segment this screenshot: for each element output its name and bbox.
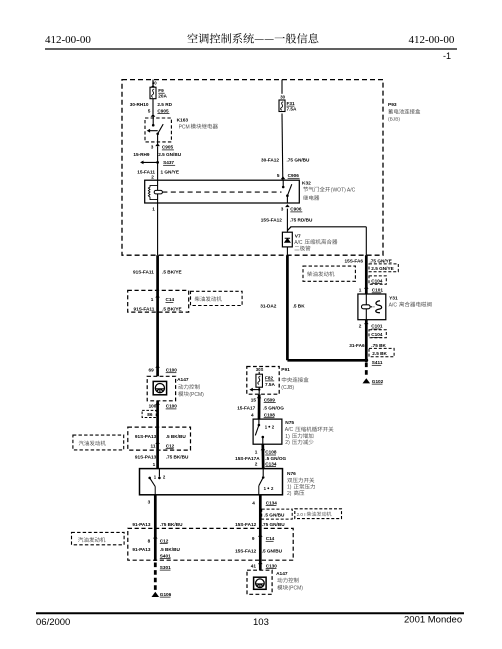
svg-text:C906: C906: [288, 173, 300, 178]
wire V7 down: [286, 247, 288, 255]
svg-text:1: 1: [152, 207, 155, 212]
PCM A147 box (dashed): [147, 376, 175, 401]
svg-text:.5 BK: .5 BK: [293, 303, 306, 308]
petrol engine note box (lower): [72, 532, 125, 544]
svg-text:K163: K163: [177, 117, 189, 123]
svg-text:103: 103: [253, 617, 269, 628]
svg-text:.5 BK/BU: .5 BK/BU: [166, 434, 187, 439]
svg-text:4: 4: [251, 412, 254, 417]
K32 label: [302, 180, 356, 200]
pin 2 of K32: [151, 174, 154, 179]
pin 2 connector C134: [255, 461, 277, 466]
svg-text:S301: S301: [160, 565, 171, 570]
svg-text:.75 BK/BU: .75 BK/BU: [166, 455, 189, 460]
svg-text:C100: C100: [166, 404, 178, 409]
PCM icon: [153, 381, 166, 394]
svg-text:.75 GN/BU: .75 GN/BU: [262, 522, 286, 527]
wire N76 pin4 down: [259, 495, 262, 570]
PCM A147 box bottom (dashed): [247, 570, 272, 594]
svg-text:F82: F82: [265, 376, 273, 381]
svg-text:2: 2: [359, 324, 362, 329]
svg-text:S411: S411: [372, 360, 383, 365]
fuse F82 7.5A: [256, 374, 263, 387]
wire N75 to N76: [261, 444, 264, 468]
svg-text:30: 30: [152, 80, 157, 85]
svg-text:A147: A147: [177, 377, 189, 383]
wire Y31 to S411: [365, 320, 368, 361]
svg-text:C104: C104: [371, 332, 383, 337]
svg-text:91S-PA13: 91S-PA13: [135, 434, 157, 439]
svg-text:A/C: A/C: [285, 427, 294, 433]
svg-text:N75: N75: [285, 420, 294, 426]
svg-text:1): 1): [285, 434, 290, 440]
PCM icon bottom: [254, 577, 267, 589]
svg-text:(PCM): (PCM): [289, 586, 304, 592]
wire label 31-DA2 .5 BK: [260, 303, 305, 308]
N76 left switch: [148, 469, 166, 495]
svg-text:2.5 BK: 2.5 BK: [372, 351, 387, 356]
diesel engine note box (middle): [303, 266, 355, 281]
alt wire 2.5 BK (dashed): [369, 348, 394, 356]
svg-text:.5 GN/BU: .5 GN/BU: [262, 548, 283, 553]
wire F82 to N75: [258, 394, 261, 419]
svg-text:86: 86: [147, 412, 153, 417]
svg-text:30S: 30S: [256, 367, 264, 372]
wire N76 pin3 down: [154, 495, 157, 561]
wire F31 to C906: [281, 114, 284, 181]
diesel connector box 2 (dashed): [128, 427, 191, 450]
splice S401: [160, 553, 171, 558]
pin 5 connector C905: [148, 108, 170, 113]
svg-text:F9: F9: [158, 88, 164, 93]
alt wire label 91S-FA11 .5 BK/YE: [134, 306, 182, 311]
svg-text:C100: C100: [166, 367, 178, 372]
svg-text:1: 1: [151, 297, 154, 302]
note 2.0I diesel (dashed): [295, 509, 342, 519]
svg-text:(PCM): (PCM): [189, 392, 204, 398]
footer page: [253, 617, 269, 628]
svg-text:91-PA13: 91-PA13: [132, 547, 151, 552]
svg-text:.75 GN/BU: .75 GN/BU: [287, 158, 311, 163]
wire label 15-FA17 .5 GN/OG: [237, 405, 284, 410]
pin 1 of N76: [153, 462, 156, 467]
svg-text:C134: C134: [266, 500, 278, 505]
svg-text:2): 2): [287, 491, 292, 497]
svg-text:C14: C14: [166, 297, 175, 302]
svg-text:A/C: A/C: [294, 240, 303, 246]
alt wire .5 GN/BU (dashed): [262, 509, 293, 519]
svg-text:.75 RD/BU: .75 RD/BU: [290, 217, 313, 222]
pin 4 connector C108: [251, 412, 275, 417]
Y31 symbol: [362, 294, 382, 320]
connector C104 lower (dashed): [369, 330, 386, 338]
svg-text:2): 2): [285, 440, 290, 446]
wire left column down: [156, 255, 159, 376]
splice S437 arrow: [140, 160, 175, 165]
svg-text:C104: C104: [371, 278, 383, 283]
svg-text:N76: N76: [287, 471, 296, 477]
svg-text:C134: C134: [265, 461, 277, 466]
svg-text:3: 3: [151, 145, 154, 150]
svg-text:8: 8: [148, 538, 151, 543]
wire label 91S-PA13 .75 BK/BU: [135, 455, 189, 460]
pin 5 connector C906: [277, 173, 300, 178]
splice S411: [364, 358, 382, 365]
svg-text:3: 3: [281, 207, 284, 212]
pin 1 of K32: [152, 207, 155, 212]
svg-text:C509: C509: [264, 397, 276, 402]
wire 15S-FA6 down to Y31: [365, 255, 368, 294]
svg-text:91S-FA11: 91S-FA11: [133, 269, 154, 274]
svg-text:1 GN/YE: 1 GN/YE: [161, 170, 180, 175]
solenoid Y31 box: [358, 294, 386, 320]
header rule: [45, 48, 457, 50]
svg-text:.5 BK/YE: .5 BK/YE: [162, 269, 182, 274]
wire label 91S-FA11 .5 BK/YE: [133, 269, 182, 274]
relay K32 box: [145, 180, 300, 203]
pin 69 connector C100: [148, 365, 177, 373]
label 30 F31: [280, 95, 285, 100]
svg-text:.75 GN/YE: .75 GN/YE: [370, 258, 392, 263]
svg-text:41: 41: [251, 563, 257, 568]
svg-text:412-00-00: 412-00-00: [45, 34, 91, 46]
svg-text:7.5A: 7.5A: [265, 382, 276, 387]
pin 1 connector C108 lower: [255, 447, 277, 455]
fuse F31 7.5A: [279, 100, 285, 112]
svg-text:15S-FA17A: 15S-FA17A: [235, 456, 260, 461]
svg-text:30: 30: [280, 95, 285, 100]
svg-text:69: 69: [148, 367, 154, 372]
header title: [187, 33, 318, 43]
svg-text:15S-FA12: 15S-FA12: [235, 522, 256, 527]
wire F9 to C905: [152, 99, 154, 114]
alt wire label 91S-PA13 .5 BK/BU: [135, 434, 186, 439]
wire label 15-FA11 1 GN/YE: [137, 170, 179, 175]
svg-text:C14: C14: [266, 536, 275, 541]
svg-text:.5 GN/BU: .5 GN/BU: [264, 512, 285, 517]
svg-text:P93: P93: [388, 102, 397, 108]
svg-text:S401: S401: [160, 553, 171, 558]
svg-text:1): 1): [287, 485, 292, 491]
svg-text:1: 1: [359, 288, 362, 293]
svg-text:.75 BK: .75 BK: [371, 343, 386, 348]
K163 switch: [147, 117, 164, 147]
svg-text:15S-FA6: 15S-FA6: [345, 258, 364, 263]
connector arrow above F9: [151, 85, 156, 88]
footer rule: [36, 612, 464, 614]
svg-text:1: 1: [255, 450, 258, 455]
switch N76 box: [140, 469, 283, 495]
wire S411 to ground: [365, 363, 368, 378]
pin 1 connector C101: [359, 286, 384, 293]
svg-text:15-FA17: 15-FA17: [237, 405, 255, 410]
svg-text:4: 4: [252, 500, 255, 505]
alt pin 86 (dashed): [142, 410, 156, 417]
diode V7 symbol: [285, 238, 290, 242]
alt wire 2.5 GN/YE (dashed): [369, 264, 398, 272]
svg-text:7.5A: 7.5A: [287, 107, 298, 112]
svg-text:(WOT) A/C: (WOT) A/C: [331, 187, 356, 193]
svg-text:C101: C101: [372, 288, 384, 293]
svg-text:30-RH10: 30-RH10: [130, 102, 149, 107]
wire label 30-RH10 2.5 RD: [130, 102, 173, 107]
P93 label: [388, 102, 420, 123]
ground G102: [363, 378, 384, 384]
svg-text:S437: S437: [163, 160, 174, 165]
svg-text:G106: G106: [160, 592, 172, 597]
label 30: [152, 80, 157, 85]
connector triangle C905: [151, 114, 156, 117]
svg-text:P91: P91: [281, 367, 290, 373]
svg-text:15S-FA12: 15S-FA12: [261, 217, 282, 222]
N75 label: [285, 420, 334, 446]
diode V7 box: [282, 232, 292, 247]
svg-text:30-FA12: 30-FA12: [261, 158, 279, 163]
svg-text:31-DA2: 31-DA2: [260, 303, 277, 308]
wire 31-DA2: [287, 255, 366, 360]
svg-text:V7: V7: [295, 233, 301, 239]
svg-text:11: 11: [151, 443, 156, 448]
svg-text:20A: 20A: [158, 93, 167, 98]
lower variant box (dashed): [128, 528, 293, 560]
svg-text:.5 GN/OG: .5 GN/OG: [263, 405, 284, 410]
pin 100 connector C100: [149, 402, 178, 409]
petrol engine note box (upper): [73, 435, 124, 450]
svg-text:.75 BK/BU: .75 BK/BU: [160, 522, 183, 527]
header page number right: [409, 34, 455, 46]
svg-text:C108: C108: [265, 450, 277, 455]
P91 central junction box (dashed): [247, 367, 279, 395]
svg-text:100: 100: [149, 404, 157, 409]
svg-text:C905: C905: [162, 145, 174, 150]
svg-text:15S-FA12: 15S-FA12: [235, 548, 256, 553]
svg-text:G102: G102: [372, 379, 384, 384]
svg-text:F31: F31: [287, 101, 295, 106]
svg-text:C12: C12: [166, 443, 175, 448]
ground G106: [152, 592, 172, 597]
svg-text:.5 BK/YE: .5 BK/YE: [162, 306, 182, 311]
svg-text:.5 GN/OG: .5 GN/OG: [265, 456, 286, 461]
svg-text:15-RH9: 15-RH9: [133, 152, 150, 157]
circuit 30 stub: [152, 80, 154, 86]
F82 arrow: [249, 387, 260, 394]
pin 3 of N76: [148, 499, 151, 504]
svg-text:91S-PA13: 91S-PA13: [135, 455, 157, 460]
pin 3 connector C905 lower: [151, 143, 174, 150]
wire A147 down: [156, 401, 159, 469]
diesel connector box (dashed): [128, 290, 189, 312]
wire label 15-RH9 2.5 GN/BU: [133, 152, 181, 157]
svg-text:9: 9: [252, 536, 255, 541]
Y31 label: [389, 295, 432, 308]
P91 label: [281, 367, 308, 391]
label 30S: [256, 367, 264, 374]
diesel engine note box (left): [191, 291, 243, 305]
svg-text:2.5 RD: 2.5 RD: [157, 102, 172, 107]
P93 battery junction box (dashed): [122, 80, 383, 256]
F82 label: [265, 376, 276, 387]
svg-text:.5 BK/BU: .5 BK/BU: [160, 547, 181, 552]
pin 2 connector C101 lower: [359, 321, 383, 329]
fuse F9 20A: [150, 87, 156, 99]
F31 label: [287, 101, 298, 112]
splice S301: [160, 565, 171, 570]
circuit 30 stub for F31: [281, 80, 283, 94]
svg-text:2.5 GN/YE: 2.5 GN/YE: [371, 266, 393, 271]
svg-text:91-PA13: 91-PA13: [132, 522, 151, 527]
wire label 15S-FA12 .75 RD/BU: [261, 217, 313, 222]
F9 label: [158, 88, 167, 98]
pin 9 connector C14: [252, 534, 275, 541]
svg-text:2.5 GN/BU: 2.5 GN/BU: [158, 152, 182, 157]
footer date: [36, 617, 70, 628]
relay K163 box (dashed): [145, 118, 171, 142]
pin 3 connector C906 lower: [281, 204, 303, 212]
svg-text:15: 15: [251, 397, 257, 402]
svg-text:412-00-00: 412-00-00: [409, 34, 455, 46]
wire label 15S-FA12 .75 GN/BU: [235, 522, 285, 527]
svg-text:5: 5: [277, 173, 280, 178]
svg-text:2: 2: [255, 461, 258, 466]
wire C906 to V7 junction: [286, 209, 288, 232]
wire label 15S-FA6 .75 GN/YE: [345, 258, 392, 263]
svg-text:PCM: PCM: [179, 124, 190, 130]
N76 right switch: [259, 469, 274, 495]
N76 label: [287, 471, 315, 497]
branch wire to Y31 column: [287, 227, 366, 256]
svg-text:C108: C108: [264, 412, 276, 417]
A147 label bottom: [276, 571, 303, 592]
wire C905 to S437: [157, 147, 159, 180]
svg-text:-1: -1: [443, 51, 451, 61]
svg-text:2: 2: [151, 174, 154, 179]
footer model: [404, 615, 462, 626]
svg-text:C130: C130: [266, 563, 278, 568]
svg-text:Y31: Y31: [389, 295, 398, 301]
svg-text:K32: K32: [302, 180, 311, 186]
svg-text:C905: C905: [157, 108, 169, 113]
svg-text:2.0 I: 2.0 I: [297, 512, 306, 517]
sheet number -1: [443, 51, 451, 61]
switch N75 box: [253, 419, 282, 444]
svg-text:C906: C906: [290, 207, 302, 212]
wire label 15S-FA17A .5 GN/OG: [235, 456, 286, 461]
svg-text:1: 1: [153, 462, 156, 467]
wire K32 pin1 down: [157, 203, 159, 255]
svg-text:06/2000: 06/2000: [36, 617, 70, 628]
wire label 91-PA13 .75 BK/BU: [132, 522, 183, 527]
K32 mechanical link (dashed): [162, 191, 281, 193]
N75 switch symbol: [255, 419, 274, 444]
pin 8 connector C12: [148, 536, 169, 544]
svg-text:5: 5: [148, 108, 151, 113]
svg-text:3: 3: [148, 499, 151, 504]
pin 15 connector C509: [251, 395, 276, 402]
wire label 31-FA6 .75 BK: [349, 343, 386, 348]
svg-text:(CJB): (CJB): [281, 385, 294, 391]
svg-text:C12: C12: [160, 538, 169, 543]
svg-text:C101: C101: [371, 324, 383, 329]
K32 coil: [148, 180, 162, 203]
V7 label: [294, 233, 337, 250]
svg-text:2001 Mondeo: 2001 Mondeo: [404, 615, 462, 626]
wire label 30-FA12 .75 GN/BU: [261, 158, 310, 163]
svg-text:91S-FA11: 91S-FA11: [134, 306, 155, 311]
svg-text:A/C: A/C: [389, 302, 398, 308]
connector triangle C906: [281, 176, 286, 179]
wire S301 to ground (dashed): [154, 563, 157, 592]
svg-text:31-FA6: 31-FA6: [349, 343, 365, 348]
pin 11 connector C12: [151, 441, 175, 449]
pin 4 connector C134 lower: [252, 500, 277, 505]
svg-text:(BJB): (BJB): [388, 117, 400, 123]
pin 1 connector C14: [151, 295, 175, 303]
svg-text:A147: A147: [276, 571, 288, 577]
alt wire label 91-PA13 .5 BK/BU: [132, 547, 180, 552]
alt wire label 15S-FA12 .5 GN/BU: [235, 548, 283, 553]
connector C104 upper (dashed): [369, 276, 386, 284]
pin 41 connector C130: [251, 561, 278, 568]
K32 switch: [282, 180, 292, 203]
A147 label top: [177, 377, 204, 398]
header page number left: [45, 34, 91, 46]
K163 label: [177, 117, 218, 130]
